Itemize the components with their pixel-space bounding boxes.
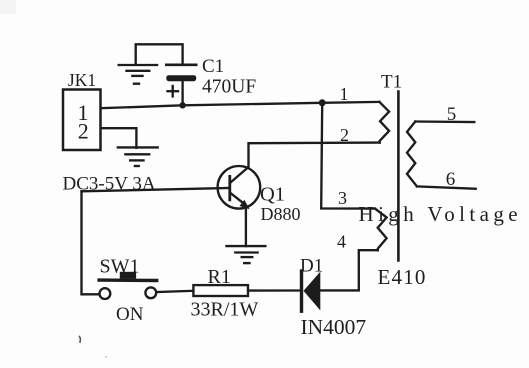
svg-text:1: 1 bbox=[340, 84, 349, 104]
resistor R1 33R/1W bbox=[191, 266, 259, 321]
ground (Q1 emitter) bbox=[227, 246, 266, 263]
svg-text:33R/1W: 33R/1W bbox=[191, 299, 259, 321]
capacitor C1 470UF bbox=[166, 56, 256, 105]
wire pin 5 bbox=[415, 120, 474, 123]
diode D1 IN4007 bbox=[300, 256, 366, 340]
transformer T1 E410 bbox=[378, 72, 427, 290]
wire SW1 to R1 bbox=[157, 291, 194, 292]
svg-text:IN4007: IN4007 bbox=[301, 315, 367, 339]
svg-text:D1: D1 bbox=[300, 256, 323, 277]
wire Q1 collector to transformer pin 2 bbox=[249, 143, 380, 167]
wire left side down to switch SW1 bbox=[82, 191, 100, 294]
svg-text:High Voltage: High Voltage bbox=[359, 202, 522, 226]
node (rail to primary junction) bbox=[319, 99, 326, 106]
svg-text:T1: T1 bbox=[381, 72, 402, 93]
svg-text:2: 2 bbox=[78, 119, 89, 144]
wire ground bracket to C1 top plate bbox=[136, 44, 183, 64]
wire Q1 emitter to ground bbox=[245, 208, 247, 246]
wire junction down to transformer pin 3 bbox=[321, 104, 375, 209]
svg-text:6: 6 bbox=[446, 169, 456, 190]
wire R1 to D1 cathode bbox=[248, 289, 300, 291]
wire pin 6 bbox=[417, 186, 476, 188]
transformer primary winding pins 3-4 bbox=[375, 209, 387, 251]
ground (C1 negative, top-left) bbox=[119, 65, 157, 84]
svg-text:D880: D880 bbox=[261, 204, 301, 224]
svg-text:Q1: Q1 bbox=[260, 184, 285, 206]
transistor Q1 D880 bbox=[218, 166, 301, 224]
ground (JK1 pin 2) bbox=[118, 147, 158, 166]
svg-text:4: 4 bbox=[337, 232, 346, 252]
svg-text:3: 3 bbox=[338, 188, 347, 208]
svg-text:470UF: 470UF bbox=[202, 77, 256, 98]
transformer secondary winding pins 5-6 bbox=[407, 122, 417, 187]
node (C1 lead on rail) bbox=[179, 102, 185, 108]
transformer primary winding pins 1-2 bbox=[379, 102, 389, 143]
svg-text:JK1: JK1 bbox=[68, 70, 96, 90]
svg-text:E410: E410 bbox=[378, 265, 427, 289]
svg-text:ON: ON bbox=[116, 304, 144, 325]
wire DC positive to Q1 base bbox=[82, 188, 230, 191]
switch SW1 (push button) bbox=[99, 256, 157, 326]
svg-text:5: 5 bbox=[447, 104, 457, 125]
svg-text:SW1: SW1 bbox=[100, 256, 140, 278]
svg-text:C1: C1 bbox=[202, 56, 224, 77]
connector JK1 bbox=[63, 70, 101, 150]
svg-text:2: 2 bbox=[340, 125, 349, 145]
wire JK1 pin2 to ground bbox=[101, 128, 136, 148]
wire JK1 pin1 to supply rail bbox=[101, 102, 379, 108]
wire D1 anode up to transformer pin 4 bbox=[320, 250, 378, 290]
svg-text:R1: R1 bbox=[208, 266, 231, 288]
